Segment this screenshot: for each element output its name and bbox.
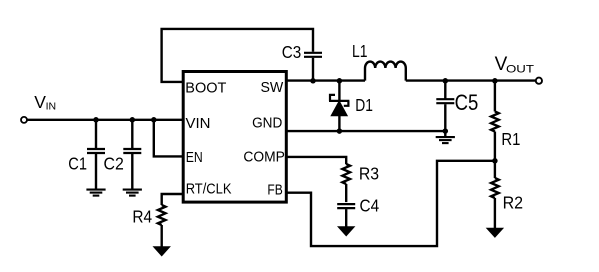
svg-text:R4: R4 [132,206,152,226]
svg-text:R1: R1 [501,129,520,149]
svg-text:OUT: OUT [506,64,534,76]
svg-text:EN: EN [186,149,203,166]
ground below R2 [486,228,504,238]
wire RT/CLK branch [162,194,183,205]
svg-text:IN: IN [46,101,57,113]
capacitor C5 [436,81,454,132]
svg-text:VIN: VIN [186,115,211,132]
capacitor C3 [304,53,322,81]
pin EN label [186,149,203,166]
svg-text:L1: L1 [352,41,368,61]
svg-text:SW: SW [261,79,285,96]
wire GND rail [287,130,445,132]
ground below C1 [86,190,105,196]
svg-text:D1: D1 [355,95,373,115]
label R1 [501,129,520,149]
capacitor C4 [337,204,355,227]
svg-text:C5: C5 [455,90,479,115]
node C2 tap [130,117,136,123]
resistor R1 [491,81,499,161]
label R2 [503,193,523,213]
pin FB label [267,182,282,199]
node C5 top junction [443,78,449,84]
pin GND label [252,115,282,132]
pin COMP label [243,149,285,166]
node D1 anode junction [337,128,343,134]
label C1 [68,154,87,174]
svg-text:C2: C2 [104,154,124,174]
label R3 [359,164,379,184]
pin SW label [261,79,285,96]
svg-text:R2: R2 [503,193,523,213]
node C3/SW junction [310,78,316,84]
node D1 cathode junction [337,78,343,84]
output terminal VOUT [536,78,542,84]
node C5 bottom junction [443,128,449,134]
node VOUT/R1 junction [492,78,498,84]
node R1/R2/FB junction [492,158,498,164]
resistor R3 [342,164,350,202]
wire COMP branch [287,157,346,164]
node C1 tap [93,117,99,123]
svg-text:COMP: COMP [243,149,285,166]
ground below C5 [436,131,455,143]
pin VIN label [186,115,211,132]
label R4 [132,206,152,226]
wire BOOT loop [162,29,313,82]
net label VIN [34,92,56,113]
svg-text:C4: C4 [360,196,380,216]
capacitor C1 [87,120,105,190]
label D1 [355,95,373,115]
inductor L1 [365,62,406,81]
svg-text:BOOT: BOOT [185,80,226,97]
svg-text:R3: R3 [359,164,379,184]
svg-text:GND: GND [252,115,282,132]
net label VOUT [495,54,535,76]
wire SW rail [287,79,536,81]
pin RT/CLK label [186,181,232,198]
pin BOOT label [185,80,226,97]
wire EN branch [154,120,183,157]
node EN tap [151,117,157,123]
ground below C2 [123,190,142,196]
label C5 [455,90,479,115]
label L1 [352,41,368,61]
resistor R4 [158,205,166,247]
svg-text:FB: FB [267,182,282,199]
svg-text:C3: C3 [282,42,302,62]
wire VIN rail [27,119,183,121]
resistor R2 [491,161,499,228]
input terminal VIN [21,117,27,123]
label C2 [104,154,124,174]
wire FB feedback [287,161,495,246]
diode D1 (Schottky) [329,81,349,132]
ground below R4 [153,246,171,256]
label C3 [282,42,302,62]
svg-text:C1: C1 [68,154,87,174]
ground below C4 [337,226,355,236]
label C4 [360,196,380,216]
svg-text:V: V [34,92,46,112]
IC U1 box [183,72,286,203]
capacitor C2 [123,120,141,190]
svg-text:RT/CLK: RT/CLK [186,181,232,198]
